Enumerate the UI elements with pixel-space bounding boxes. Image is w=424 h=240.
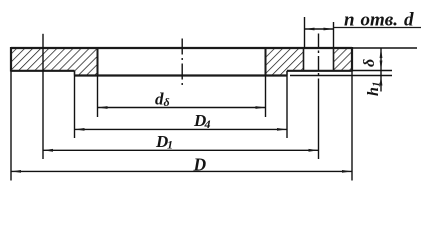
right bolt hole centerline / D1 extension bbox=[318, 34, 320, 80]
svg-text:4: 4 bbox=[204, 117, 211, 131]
extension line D right bbox=[351, 72, 353, 181]
arrowhead h1 top bbox=[380, 76, 383, 86]
dimension line bolt hole d bbox=[305, 28, 334, 30]
flange raised face bottom outline bbox=[75, 74, 288, 76]
svg-text:1: 1 bbox=[167, 138, 173, 152]
arrowhead delta bottom bbox=[380, 61, 383, 71]
svg-text:d: d bbox=[404, 10, 414, 31]
dimension line D bbox=[11, 170, 352, 172]
leader shelf n otv d bbox=[334, 27, 422, 29]
dimension line D4 bbox=[75, 128, 288, 130]
dimension line db bbox=[98, 107, 266, 109]
svg-text:δ: δ bbox=[164, 95, 170, 109]
arrowhead D4 right bbox=[277, 128, 287, 131]
arrowhead delta top bbox=[380, 48, 383, 58]
arrowhead d right bbox=[324, 28, 334, 31]
dimension line D1 bbox=[43, 149, 319, 151]
svg-text:D: D bbox=[193, 154, 207, 174]
arrowhead db right bbox=[256, 106, 266, 109]
bolt hole left edge bbox=[303, 48, 305, 71]
svg-text:n: n bbox=[344, 10, 355, 31]
bolt hole right edge bbox=[333, 48, 335, 71]
D1 right extension line (lower solid part) bbox=[318, 79, 320, 159]
svg-text:h: h bbox=[365, 87, 382, 96]
svg-text:δ: δ bbox=[361, 59, 378, 67]
extension line D left bbox=[10, 72, 12, 181]
flange left step edge bbox=[74, 71, 76, 76]
flange right section hatch (right of bolt hole) bbox=[334, 48, 353, 71]
extension line top surface right bbox=[352, 47, 417, 49]
dimension line delta (plate thickness) bbox=[380, 48, 382, 92]
left bolt axis centerline / D1 extension bbox=[42, 34, 44, 159]
extension line D4 left bbox=[74, 76, 76, 139]
arrowhead db left bbox=[98, 106, 108, 109]
flange right section hatch (left of bolt hole) bbox=[266, 48, 304, 76]
arrowhead D1 left bbox=[43, 149, 53, 152]
flange right outer edge bbox=[351, 47, 353, 72]
extension line bolt hole d left bbox=[304, 17, 306, 48]
extension line bolt hole d right bbox=[333, 22, 335, 48]
arrowhead D left bbox=[11, 170, 21, 173]
bore left edge bbox=[97, 48, 99, 76]
extension line D4 right bbox=[286, 76, 288, 139]
extension line db left bbox=[97, 76, 99, 118]
extension line raised face bottom right bbox=[290, 75, 392, 77]
flange left section hatch bbox=[11, 48, 98, 76]
flange axis centerline bbox=[181, 39, 183, 88]
flange right bottom outline bbox=[287, 70, 352, 72]
extension line db right bbox=[265, 76, 267, 118]
flange left outer edge bbox=[10, 47, 12, 72]
arrowhead D4 left bbox=[75, 128, 85, 131]
arrowhead D1 right bbox=[309, 149, 319, 152]
arrowhead D right bbox=[342, 170, 352, 173]
arrowhead d left bbox=[305, 28, 315, 31]
flange left bottom outline bbox=[11, 70, 75, 72]
flange right step edge bbox=[286, 71, 288, 76]
extension line flange bottom right bbox=[352, 70, 392, 72]
svg-text:отв.: отв. bbox=[361, 10, 399, 31]
flange top surface outline bbox=[11, 47, 352, 49]
bore right edge bbox=[265, 48, 267, 76]
svg-text:1: 1 bbox=[371, 82, 383, 88]
